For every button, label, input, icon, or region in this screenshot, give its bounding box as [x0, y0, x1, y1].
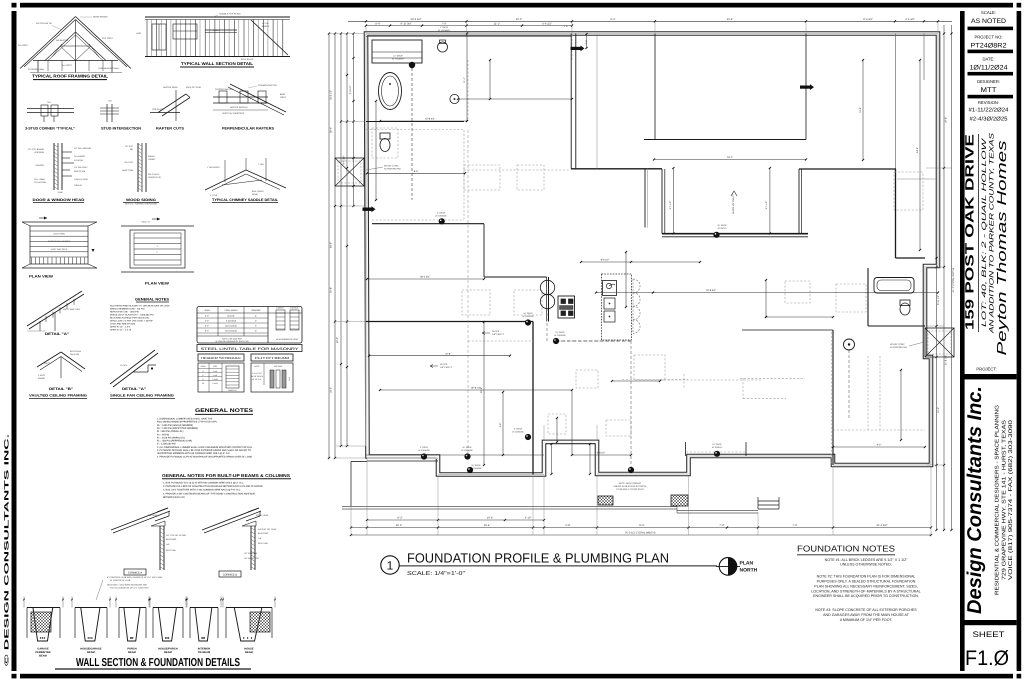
- svg-text:TYPICAL CHIMNEY SADDLE DETAIL: TYPICAL CHIMNEY SADDLE DETAIL: [212, 198, 278, 202]
- svg-text:BRACE: BRACE: [262, 25, 270, 28]
- svg-text:WOOD SIDING: WOOD SIDING: [126, 198, 156, 202]
- svg-text:1/2" DIA. ANCHOR: 1/2" DIA. ANCHOR: [74, 147, 92, 150]
- svg-text:PT24Ø8R2: PT24Ø8R2: [971, 42, 1007, 49]
- border bottom-left corner square: [12, 674, 17, 679]
- fixture: water heater: [844, 339, 855, 350]
- marker: left wall jog: [363, 208, 372, 211]
- symbols: slab drop markers: [421, 218, 720, 473]
- svg-text:DEAD LOAD = 6 PSF LIVE LO: DEAD LOAD = 6 PSF LIVE LOAD = 40 PSF: [110, 320, 154, 323]
- svg-text:AT CENTER OF SLAB . . .: AT CENTER OF SLAB . . .: [110, 579, 134, 582]
- svg-text:SHEATHG SD: SHEATHG SD: [148, 176, 161, 179]
- svg-text:FLATWORK PAD: FLATWORK PAD: [384, 168, 401, 171]
- svg-text:10'-6": 10'-6": [487, 517, 494, 520]
- detail: cornice A: [111, 508, 187, 570]
- text: slab reinforcing note: [96, 576, 163, 600]
- svg-text:MTT: MTT: [981, 87, 998, 94]
- svg-text:FLATWORK PAD: FLATWORK PAD: [890, 346, 907, 349]
- svg-text:2" DROP: 2" DROP: [437, 212, 446, 215]
- fixture: master shower: [372, 40, 422, 63]
- svg-text:2. ALL DIMENSIONAL LUMBER SHA: 2. ALL DIMENSIONAL LUMBER SHALL HAVE A M…: [157, 446, 253, 449]
- svg-text:DETAIL "A": DETAIL "A": [122, 387, 146, 391]
- dimensions: extension lines: [330, 22, 952, 535]
- svg-text:9'-10 3/4": 9'-10 3/4": [401, 22, 412, 25]
- svg-text:2. PROVIDE FULL BED OF CO: 2. PROVIDE FULL BED OF CONSTRUCTION ADHE…: [163, 485, 264, 488]
- detail: cornice B: [202, 508, 277, 570]
- svg-text:REVISION:: REVISION:: [978, 100, 999, 105]
- svg-text:LOT: 40, BLK: 2 - QUAIL HOLLOW: LOT: 40, BLK: 2 - QUAIL HOLLOW: [981, 137, 988, 327]
- section: house beam: [222, 597, 276, 642]
- svg-text:5'-0": 5'-0": [205, 320, 209, 323]
- svg-text:18'-2": 18'-2": [330, 387, 333, 393]
- svg-text:2 LOCH: 2 LOCH: [120, 364, 128, 367]
- svg-text:TRIM AS: TRIM AS: [74, 184, 83, 187]
- svg-text:BEAM: BEAM: [87, 651, 95, 654]
- svg-text:729 GRAPEVINE HWY. STE 141 - H: 729 GRAPEVINE HWY. STE 141 - HURST, TEXA…: [1002, 419, 1008, 580]
- svg-text:PROJECT NO:: PROJECT NO:: [974, 35, 1002, 40]
- svg-text:PER DETAIL: PER DETAIL: [74, 170, 86, 173]
- text: general notes (lintel): [110, 298, 170, 332]
- svg-text:BEAM: BEAM: [128, 651, 136, 654]
- fixture: hall bathtub: [874, 278, 914, 294]
- svg-text:5/8 PSL/2x6: 5/8 PSL/2x6: [70, 350, 82, 353]
- svg-text:Fv = 95 PSI: Fv = 95 PSI: [157, 433, 169, 436]
- labels: beam section names: [35, 648, 253, 658]
- symbol: plan north: [719, 558, 737, 576]
- svg-text:4": 4": [255, 315, 257, 318]
- svg-text:RAFTER CUTS: RAFTER CUTS: [156, 127, 185, 131]
- svg-text:W/ INTERSPACED LOAD: W/ INTERSPACED LOAD: [276, 338, 298, 341]
- svg-text:REPETITIVE USE - 1450 PSI: REPETITIVE USE - 1450 PSI: [110, 311, 139, 314]
- svg-text:STEEL ANGLE: STEEL ANGLE: [224, 309, 238, 312]
- detail: stud intersection: [100, 100, 119, 123]
- label: cornice B: [219, 571, 241, 577]
- section: house/porch beam: [149, 597, 187, 642]
- svg-text:AT GARAGE: AT GARAGE: [435, 215, 447, 218]
- svg-text:GENERAL NOTES: GENERAL NOTES: [195, 408, 254, 414]
- svg-text:C-BLOCK: C-BLOCK: [290, 307, 299, 310]
- svg-text:SOUTHERN PINE KILN DRY TO 19%: SOUTHERN PINE KILN DRY TO 19% MOISTURE O…: [110, 305, 170, 308]
- svg-text:ON ALUM: ON ALUM: [70, 353, 79, 356]
- svg-text:1/2" DIA. BOLT: 1/2" DIA. BOLT: [74, 166, 88, 169]
- svg-text:21'-8 1/2": 21'-8 1/2": [944, 355, 947, 365]
- svg-text:2x6 RAFTER: 2x6 RAFTER: [56, 39, 69, 42]
- fixture: range: [558, 296, 575, 318]
- svg-text:RESIDENTIAL & COMMERCIAL DESIG: RESIDENTIAL & COMMERCIAL DESIGNERS - SPA…: [994, 405, 1000, 595]
- wall: garage porch inner edge: [367, 460, 438, 462]
- svg-text:16" DROP: 16" DROP: [523, 312, 533, 315]
- svg-text:SHEET: SHEET: [973, 630, 1005, 639]
- svg-text:TYPICAL ROOF FRAMING DETAIL: TYPICAL ROOF FRAMING DETAIL: [32, 74, 109, 79]
- svg-text:NOTE: RUN CONDUIT: NOTE: RUN CONDUIT: [619, 482, 642, 485]
- svg-text:COMMON RAFTER: COMMON RAFTER: [258, 84, 277, 87]
- svg-text:BASE TRIM: BASE TRIM: [122, 169, 133, 172]
- svg-text:PLAN VIEW: PLAN VIEW: [29, 275, 54, 279]
- svg-text:31'-8": 31'-8": [445, 353, 451, 356]
- table: flitch beam: [251, 354, 293, 392]
- svg-text:SLOPE 1/8" PER FT: SLOPE 1/8" PER FT: [732, 193, 735, 214]
- detail: rafter cuts: [150, 86, 202, 121]
- svg-text:4'-0": 4'-0": [205, 315, 209, 318]
- svg-text:Fb = 1050 PSI (SINGLE MEMBE: Fb = 1050 PSI (SINGLE MEMBER): [157, 424, 193, 427]
- svg-text:Fb = 1200 PSI (REPETITIVE ME: Fb = 1200 PSI (REPETITIVE MEMBER): [157, 427, 198, 430]
- svg-text:SPAN TO 16' - 2 X 8: SPAN TO 16' - 2 X 8: [110, 326, 131, 329]
- svg-text:BIRD: BIRD: [280, 93, 285, 96]
- svg-text:10'-5": 10'-5": [516, 18, 523, 21]
- svg-text:NOTE: NOTE: [255, 365, 261, 368]
- fixture: wc toilet top: [438, 42, 448, 52]
- text: foundation notes: [797, 544, 921, 623]
- svg-text:SHIM: SHIM: [58, 191, 63, 194]
- svg-text:ALLOW REL BEARING OF EACH END: ALLOW REL BEARING OF EACH END: [215, 340, 249, 343]
- svg-text:22'-0": 22'-0": [336, 337, 339, 343]
- svg-text:8'-6": 8'-6": [414, 170, 419, 173]
- stoop: hatched rear stoop: [671, 495, 688, 506]
- svg-text:60'-0": 60'-0": [330, 242, 333, 248]
- porch: rear porch columns: [685, 442, 687, 456]
- svg-text:11'-1": 11'-1": [463, 77, 466, 83]
- detail: plan view 1 (deck framing): [22, 217, 97, 269]
- svg-text:TYPICAL WALL SECTION DETAIL: TYPICAL WALL SECTION DETAIL: [181, 61, 254, 66]
- svg-text:WALL "A": WALL "A": [142, 221, 151, 224]
- svg-text:BOX (SHED): BOX (SHED): [252, 190, 264, 193]
- svg-text:C-BRICK: C-BRICK: [276, 307, 285, 310]
- svg-text:GENERAL NOTES: GENERAL NOTES: [135, 298, 170, 302]
- svg-text:1/8" PER FT: 1/8" PER FT: [440, 366, 453, 369]
- svg-text:3'-10": 3'-10": [525, 517, 532, 520]
- svg-text:6'-4 1/2": 6'-4 1/2": [542, 22, 552, 25]
- section: garage perimeter beam: [23, 597, 64, 642]
- svg-text:DETAIL "A": DETAIL "A": [45, 332, 69, 336]
- svg-text:JOIST AND NAILER SIZE: JOIST AND NAILER SIZE: [110, 323, 136, 326]
- svg-text:CORNICE A: CORNICE A: [128, 572, 143, 575]
- titleblock: left thick bar: [960, 11, 965, 671]
- svg-text:HDR: HDR: [136, 32, 141, 35]
- svg-text:PLAN: PLAN: [740, 561, 754, 567]
- svg-text:SIL PLCD: SIL PLCD: [124, 161, 133, 164]
- svg-text:COL. JAMB: COL. JAMB: [34, 178, 45, 181]
- section: house/garage beam: [71, 597, 111, 642]
- svg-text:SPAN: SPAN: [201, 365, 206, 368]
- svg-text:11'-2": 11'-2": [494, 22, 500, 25]
- stoop: hatched front stoop: [598, 496, 613, 505]
- svg-text:AT PATIO: AT PATIO: [718, 227, 727, 230]
- detail: 3-stud corner: [27, 101, 74, 122]
- svg-text:E = 1,500,000 PSI: E = 1,500,000 PSI: [157, 443, 176, 446]
- svg-text:A MINIMUM OF 1/4" PER FOOT.: A MINIMUM OF 1/4" PER FOOT.: [840, 618, 893, 622]
- svg-text:SECTION: SECTION: [274, 365, 283, 368]
- svg-text:40'-8 3/4": 40'-8 3/4": [706, 289, 716, 292]
- svg-text:6": 6": [255, 320, 257, 323]
- detail: detail A sloped framing: [27, 291, 84, 331]
- svg-text:HEADER: HEADER: [36, 164, 45, 167]
- svg-text:9'-8": 9'-8": [499, 423, 502, 428]
- detail: chimney saddle: [205, 158, 286, 197]
- svg-text:4. PROVIDE 2-3/8" CONTINUED: 4. PROVIDE 2-3/8" CONTINUED BEAMS OF “TI…: [163, 492, 256, 495]
- wall: hatch tint inside outer wall: [366, 33, 938, 35]
- svg-text:JOINT: JOINT: [280, 96, 287, 99]
- svg-text:SUPPORTING MEMBERS WITH 8d COM: SUPPORTING MEMBERS WITH 8d COMMON WIRE N…: [157, 452, 231, 455]
- svg-text:AT SHOWER: AT SHOWER: [438, 29, 450, 32]
- svg-text:6'-0": 6'-0": [205, 325, 209, 328]
- fixture: master toilet: [380, 139, 390, 152]
- plumbing: dashed waste lines: [412, 68, 849, 470]
- titleblock: project address: [963, 132, 1010, 356]
- svg-text:3. NAIL 2X'S TOGETHER WITH 2-: 3. NAIL 2X'S TOGETHER WITH 2-16d COMMON …: [163, 489, 241, 492]
- svg-text:AND GARAGES AWAY FROM THE MAIN: AND GARAGES AWAY FROM THE MAIN HOUSE AT: [823, 613, 910, 617]
- wall: outer foundation wall (double line): [366, 34, 938, 475]
- marker: wall jog left: [571, 47, 581, 50]
- svg-text:2x8 DVR. GD. PLNK: 2x8 DVR. GD. PLNK: [258, 528, 277, 531]
- svg-text:NORTH: NORTH: [740, 568, 758, 574]
- svg-text:WALL SECTION & FOUNDATION DETA: WALL SECTION & FOUNDATION DETAILS: [76, 657, 240, 669]
- svg-text:LET-IN: LET-IN: [262, 22, 269, 25]
- svg-text:FOLLOWING MINIMUM PROPERTIES:: FOLLOWING MINIMUM PROPERTIES: (TYP #2 KD…: [157, 421, 217, 424]
- svg-text:8'-6": 8'-6": [639, 524, 644, 527]
- svg-text:4. PROVIDE PLYWOOD CLIPS AT M: 4. PROVIDE PLYWOOD CLIPS AT MIDSPAN OF U…: [157, 455, 252, 458]
- svg-text:19'-8": 19'-8": [944, 117, 947, 123]
- svg-text:2x6/B.O.V.: 2x6/B.O.V.: [228, 389, 237, 392]
- svg-text:LOAD BEARING WALL: LOAD BEARING WALL: [98, 67, 121, 70]
- detail: typical wall section: [136, 13, 290, 62]
- svg-text:PLAN SHOWING ALL NECESSARY REI: PLAN SHOWING ALL NECESSARY REINFORCEMENT…: [814, 584, 917, 588]
- fixture: kitchen double sink: [540, 280, 554, 294]
- svg-text:2-2 1/2" PLT: 2-2 1/2" PLT: [252, 372, 263, 375]
- svg-text:AES PLNK: AES PLNK: [258, 542, 268, 545]
- label: cornice A: [124, 569, 146, 575]
- svg-text:UNLESS OTHERWISE NOTED.: UNLESS OTHERWISE NOTED.: [840, 562, 892, 566]
- svg-text:26'-8 1/2": 26'-8 1/2": [471, 387, 481, 390]
- svg-text:2x HEADER: 2x HEADER: [74, 155, 86, 158]
- svg-text:1" AIR: 1" AIR: [258, 163, 264, 166]
- svg-text:TIES TO #3 BARS IN 1/8" O.C. E: TIES TO #3 BARS IN 1/8" O.C. EACH WAY: [110, 587, 149, 590]
- svg-text:NOTE #3: SLOPE CONCRETE OF AL: NOTE #3: SLOPE CONCRETE OF ALL EXTERIOR …: [815, 608, 917, 612]
- svg-text:FACE OF STUD: FACE OF STUD: [186, 86, 202, 89]
- svg-text:© DESIGN CONSULTANTS INC.: © DESIGN CONSULTANTS INC.: [4, 433, 11, 666]
- svg-text:24'-6": 24'-6": [916, 147, 919, 153]
- detail: plan view 2 (wall framing): [121, 218, 194, 273]
- svg-text:TOP PLATE: TOP PLATE: [152, 108, 164, 111]
- svg-text:1. DIMENSIONAL LUMBER USED SH: 1. DIMENSIONAL LUMBER USED SHALL HAVE TH…: [157, 418, 213, 421]
- svg-text:7'-0": 7'-0": [719, 524, 724, 527]
- border right page bar: [1017, 11, 1022, 671]
- symbol: detail marker 1: [381, 556, 399, 574]
- svg-text:3x3x1/4": 3x3x1/4": [227, 315, 235, 318]
- svg-text:Design Consultants Inc.: Design Consultants Inc.: [964, 386, 986, 614]
- svg-text:29'-3 1/2": 29'-3 1/2": [411, 18, 422, 21]
- detail: wood siding: [122, 143, 161, 192]
- svg-text:2-2x10: 2-2x10: [212, 378, 218, 381]
- detail: typical roof framing: [18, 16, 131, 73]
- svg-text:SLOPE: SLOPE: [492, 330, 500, 333]
- svg-text:ROOF: ROOF: [252, 193, 259, 196]
- svg-text:9'-1": 9'-1": [610, 18, 615, 21]
- svg-text:STEEL LINTEL TABLE FOR MAS: STEEL LINTEL TABLE FOR MASONRY: [201, 347, 300, 351]
- svg-text:14'-2": 14'-2": [937, 407, 940, 413]
- svg-text:10'-4": 10'-4": [484, 524, 491, 527]
- svg-text:9'-1 1/2": 9'-1 1/2": [669, 201, 672, 210]
- border bottom bar: [20, 674, 1013, 679]
- svg-text:36'-4": 36'-4": [330, 127, 333, 133]
- svg-text:NOTE #1: ALL BRICK LEDGES ARE: NOTE #1: ALL BRICK LEDGES ARE 5 1/2" X 1…: [825, 558, 908, 562]
- svg-text:21'-1 1/2": 21'-1 1/2": [877, 524, 888, 527]
- svg-text:W/ 5/8" BOLTS: W/ 5/8" BOLTS: [251, 375, 264, 378]
- svg-text:1/8" WASH SDG: 1/8" WASH SDG: [244, 557, 259, 560]
- svg-text:4x3-1/2x5/16: 4x3-1/2x5/16: [225, 325, 237, 328]
- svg-text:EXTERIOR WALL: EXTERIOR WALL: [28, 68, 46, 71]
- svg-text:2" AT 45: 2" AT 45: [210, 194, 218, 197]
- wall: porch side leg: [351, 461, 367, 463]
- svg-text:BLOCKING: BLOCKING: [166, 538, 177, 541]
- svg-text:CLG JOIST: CLG JOIST: [102, 37, 113, 40]
- svg-text:INTERIOR: INTERIOR: [34, 151, 44, 154]
- svg-text:RAFTER SHOULD: RAFTER SHOULD: [230, 106, 248, 109]
- svg-text:FRAME: FRAME: [38, 377, 46, 380]
- fixture: kitchen island: [602, 274, 632, 340]
- svg-text:W/ P.V.C. FURRED SHEATHING: W/ P.V.C. FURRED SHEATHING: [125, 203, 157, 206]
- svg-text:20'-8": 20'-8": [480, 387, 483, 393]
- svg-text:CONTINUOUS HEADER: CONTINUOUS HEADER: [48, 240, 71, 243]
- svg-text:1Ø/11/2Ø24: 1Ø/11/2Ø24: [970, 65, 1008, 72]
- svg-text:2 JOIST: 2 JOIST: [38, 374, 46, 377]
- svg-text:CAULK & SEAL: CAULK & SEAL: [74, 178, 89, 181]
- fixture: master lav sink: [450, 94, 459, 103]
- svg-text:AS REQD: AS REQD: [74, 159, 84, 162]
- svg-text:BAL SIGN: BAL SIGN: [148, 514, 158, 517]
- svg-text:1. NAIL PLYWOOD TO 2 (& 3) #2: 1. NAIL PLYWOOD TO 2 (& 3) #2 WITH 8d CO…: [163, 482, 244, 485]
- svg-text:19'-8": 19'-8": [859, 107, 862, 113]
- svg-text:FINISH: FINISH: [148, 155, 155, 158]
- svg-text:TIE BEAM: TIE BEAM: [198, 651, 210, 654]
- svg-text:F1.Ø: F1.Ø: [965, 647, 1009, 670]
- svg-text:PLAN VIEW: PLAN VIEW: [145, 282, 170, 286]
- svg-text:VERTICAL SUPPORTS: VERTICAL SUPPORTS: [222, 112, 245, 115]
- text: general notes (main): [157, 408, 254, 458]
- svg-text:1" AIR SPACE: 1" AIR SPACE: [207, 166, 220, 169]
- svg-text:1/2" GYP: 1/2" GYP: [125, 145, 134, 148]
- svg-text:8'-6": 8'-6": [375, 22, 380, 25]
- svg-text:76'-0 1/2" (TOTAL WIDTH): 76'-0 1/2" (TOTAL WIDTH): [625, 532, 656, 535]
- svg-text:AT SHOWER: AT SHOWER: [392, 58, 404, 61]
- label: steel lintel table for masonry: [197, 345, 302, 352]
- svg-text:SCALE: 1/4"=1'-0": SCALE: 1/4"=1'-0": [407, 570, 465, 577]
- svg-text:AT 16" O.C.: AT 16" O.C.: [252, 378, 262, 381]
- labels: drop notes: [392, 26, 727, 470]
- svg-text:9'-2": 9'-2": [877, 444, 882, 447]
- pad: right concrete flatwork pad: [925, 328, 954, 357]
- svg-text:WALL: WALL: [213, 29, 219, 32]
- svg-text:2-2x12: 2-2x12: [212, 382, 218, 385]
- svg-text:ENGINEER SHALL BE ACQUIRED PRI: ENGINEER SHALL BE ACQUIRED PRIOR TO CONS…: [813, 594, 919, 598]
- svg-text:7'-0": 7'-0": [441, 22, 446, 25]
- svg-text:2x4 JOIST: 2x4 JOIST: [62, 64, 73, 67]
- svg-text:3'-1 1/2": 3'-1 1/2": [905, 18, 915, 21]
- steps: rear porch steps: [758, 504, 779, 506]
- svg-text:4" CONCRETE SLAB WITH #3 BARS: 4" CONCRETE SLAB WITH #3 BARS @ 18" O.C.…: [107, 576, 163, 579]
- svg-text:PERPENDICULAR RAFTERS: PERPENDICULAR RAFTERS: [222, 127, 275, 131]
- svg-text:BEAM: BEAM: [164, 651, 172, 654]
- svg-text:MESH BAG - 15/10 WIRE MESHOVER: MESH BAG - 15/10 WIRE MESHOVER AND: [107, 584, 147, 587]
- svg-text:16" DROP: 16" DROP: [712, 443, 722, 446]
- svg-text:UNDER SLAB FOR ELECTRICAL: UNDER SLAB FOR ELECTRICAL: [613, 485, 647, 488]
- text: general notes for built-up beams & columns: [162, 473, 291, 499]
- svg-text:1/8" PER FT: 1/8" PER FT: [492, 333, 505, 336]
- svg-text:2-2x6: 2-2x6: [213, 370, 218, 373]
- titleblock: scale/project/date/designer/revision: [968, 10, 1014, 122]
- svg-text:2" DROP: 2" DROP: [420, 446, 429, 449]
- svg-text:10'-6": 10'-6": [396, 524, 403, 527]
- svg-text:3. PLYWOOD DECKING SHALL BE 2: 3. PLYWOOD DECKING SHALL BE 23/32 EXTERI…: [157, 449, 251, 452]
- svg-text:8'-6 1/2": 8'-6 1/2": [601, 259, 610, 262]
- svg-text:Fc = 350 PSI (PERPENDICULAR): Fc = 350 PSI (PERPENDICULAR): [157, 440, 192, 443]
- partitions: dashed interior partitions and cabinets: [366, 33, 925, 464]
- svg-text:BLOCKING AS REQD PER 2x6/24 US: BLOCKING AS REQD PER 2x6/24 USC: [110, 317, 150, 320]
- svg-text:AT GARAGE: AT GARAGE: [554, 334, 566, 337]
- section: porch beam: [115, 597, 150, 642]
- svg-text:JOIST SPAN: JOIST SPAN: [53, 233, 65, 236]
- svg-text:#2-4/3Ø/2Ø25: #2-4/3Ø/2Ø25: [970, 116, 1008, 123]
- svg-text:TO 1x4 TRIM: TO 1x4 TRIM: [34, 181, 46, 184]
- svg-text:LOCATION, AND STRENGTH OF MATE: LOCATION, AND STRENGTH OF MATERIALS BY A…: [811, 589, 920, 593]
- svg-text:STUD INTERSECTION: STUD INTERSECTION: [101, 127, 142, 131]
- svg-text:1/2" GYP. BOARD: 1/2" GYP. BOARD: [28, 148, 45, 151]
- svg-text:5'-8 1/2": 5'-8 1/2": [597, 452, 606, 455]
- svg-text:DETAIL "B": DETAIL "B": [49, 387, 73, 391]
- dimensions: interior dimension lines: [366, 32, 939, 475]
- detail: detail A single fan: [110, 350, 158, 387]
- svg-text:45"x45" CONC: 45"x45" CONC: [890, 343, 905, 346]
- table: steel lintel: [197, 307, 302, 344]
- svg-text:FOUNDATION PROFILE & PLUMBI: FOUNDATION PROFILE & PLUMBING PLAN: [407, 551, 669, 566]
- svg-text:41'-7" (TOTAL DEPTH): 41'-7" (TOTAL DEPTH): [952, 268, 955, 293]
- svg-text:1/2" WTTRDW: 1/2" WTTRDW: [244, 552, 257, 555]
- pad: left concrete flatwork pad: [335, 158, 364, 186]
- svg-text:8'-3 1/2": 8'-3 1/2": [863, 18, 873, 21]
- svg-text:16" DROP: 16" DROP: [471, 464, 481, 467]
- svg-text:SPAN TO 21' - 2 X 10: SPAN TO 21' - 2 X 10: [110, 329, 132, 332]
- titleblock: project divider: [965, 374, 1017, 379]
- detail: perpendicular rafters: [213, 84, 287, 115]
- svg-text:Peyton Thomas Homes: Peyton Thomas Homes: [994, 140, 1009, 356]
- svg-text:BEAM: BEAM: [39, 654, 47, 657]
- section: interior tie beam: [186, 597, 222, 642]
- svg-text:AT GARAGE: AT GARAGE: [461, 449, 473, 452]
- svg-text:PROJECT:: PROJECT:: [976, 367, 996, 372]
- svg-text:AT PORCH: AT PORCH: [712, 446, 723, 449]
- svg-text:3-STUD CORNER “TYPICAL”: 3-STUD CORNER “TYPICAL”: [25, 127, 75, 131]
- fixture: freestanding tub: [379, 73, 402, 110]
- svg-text:2x12: 2x12: [288, 377, 291, 381]
- svg-text:JOIST: JOIST: [44, 362, 50, 365]
- svg-text:9'-6 3/4": 9'-6 3/4": [343, 155, 346, 164]
- svg-text:16" DROP: 16" DROP: [717, 224, 727, 227]
- svg-text:AT GARAGE: AT GARAGE: [418, 449, 430, 452]
- titleblock: firm name and address: [964, 386, 1014, 614]
- svg-text:BLOCKING: BLOCKING: [258, 532, 269, 535]
- svg-text:36'-4 3/4": 36'-4 3/4": [420, 276, 430, 279]
- border left bar: [12, 11, 17, 671]
- svg-text:NOTE #2: THIS FOUNDATION PLAN: NOTE #2: THIS FOUNDATION PLAN IS FOR DIM…: [817, 575, 916, 579]
- wall: brick ledge line top: [366, 36, 571, 38]
- marker: wall jog right: [800, 86, 810, 89]
- svg-text:FOUNDATION NOTES: FOUNDATION NOTES: [797, 544, 895, 554]
- svg-text:5'-8": 5'-8": [565, 524, 570, 527]
- table: header schedule: [198, 354, 244, 392]
- svg-text:Fc = 1150 PSI (PARALLEL): Fc = 1150 PSI (PARALLEL): [157, 436, 185, 439]
- border bottom-right corner square: [1017, 674, 1022, 679]
- svg-text:12" DROP: 12" DROP: [393, 55, 403, 58]
- svg-text:2x6 COLLAR TIE: 2x6 COLLAR TIE: [36, 22, 53, 25]
- svg-text:HEADER SCHEDULE: HEADER SCHEDULE: [201, 356, 241, 360]
